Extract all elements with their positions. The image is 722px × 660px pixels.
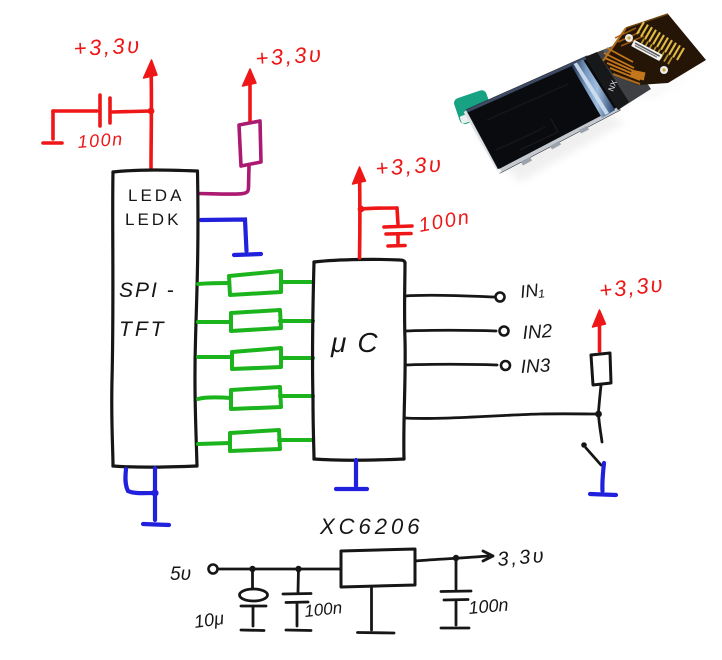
wire C2 top lead (red): [361, 208, 398, 224]
node: junction of U1 ground wires: [151, 489, 158, 496]
svg-text:100n: 100n: [303, 598, 343, 621]
SPI-TFT display box U1: [112, 170, 198, 467]
svg-text:100n: 100n: [417, 206, 473, 237]
photo shadow: [475, 72, 700, 182]
orange traces lower-left: [604, 48, 640, 80]
voltage regulator U3 XC6206: [341, 549, 415, 587]
svg-text:+3,3υ: +3,3υ: [255, 41, 325, 71]
orange pad near connector: [630, 70, 645, 81]
terminal IN1: [496, 293, 505, 302]
terminal 5V input: [209, 565, 218, 574]
capacitor C1 100n plates: [100, 95, 110, 126]
wire U3 ground pin: [370, 587, 373, 630]
wire U2 output 1: [405, 295, 494, 297]
node: junction C5 on 3,3V output: [453, 555, 459, 561]
ground (C2): [388, 234, 405, 246]
power symbol +3,3V arrow (top-left): [144, 60, 158, 169]
svg-text:μC: μC: [330, 327, 389, 358]
wire R7 to node A: [599, 385, 602, 412]
gold finger comb: [637, 22, 684, 60]
bottom small tabs: [521, 126, 589, 166]
wire LEDK pin to ground (blue): [201, 220, 247, 252]
wire switch to ground (blue): [602, 463, 604, 491]
ground (C3): [241, 606, 264, 631]
power symbol +3,3V arrow (above R6): [243, 69, 257, 121]
wire U2 output 2: [405, 329, 496, 333]
wire U2 output 3: [405, 363, 497, 367]
svg-text:IN₁: IN₁: [519, 279, 545, 302]
microcontroller box U2: [313, 259, 406, 460]
svg-text:10μ: 10μ: [193, 608, 226, 632]
resistor R5 (green) with leads: [198, 430, 313, 451]
resistor R4 (green) with leads: [198, 387, 313, 409]
wire U2 ground pin (blue): [354, 460, 358, 486]
ground (C4): [286, 603, 311, 631]
wire C1 left lead: [53, 109, 97, 113]
ground (switch): [590, 494, 616, 495]
teal tab: [453, 89, 494, 126]
blue stripe near connector: [571, 60, 615, 119]
resistor R2 (green) with leads: [198, 310, 313, 331]
ground (C5): [441, 600, 469, 628]
svg-text:3,3υ: 3,3υ: [497, 545, 548, 571]
svg-text:LEDK: LEDK: [125, 210, 181, 229]
ground (C1): [43, 111, 62, 143]
resistor R6 backlight (magenta): [239, 121, 261, 166]
ground (U2): [336, 487, 367, 491]
svg-text:XC6206: XC6206: [319, 514, 424, 539]
svg-text:100n: 100n: [77, 129, 124, 152]
resistor R3 (green) with leads: [198, 348, 313, 369]
node: junction of C2 with U2 supply: [358, 206, 365, 213]
svg-text:LEDA: LEDA: [128, 186, 184, 205]
node: junction C3 on 5V rail: [249, 566, 255, 572]
wire node A to switch: [599, 414, 603, 442]
silver frame bottom edge: [498, 107, 620, 173]
display glass body: [464, 56, 620, 173]
capacitor C4 100n: [283, 569, 311, 603]
ground (U1): [143, 524, 169, 525]
orange traces upper-left: [615, 28, 644, 46]
svg-text:+3,3υ: +3,3υ: [73, 32, 142, 61]
resistor R7 pull-up (black): [591, 353, 611, 385]
svg-text:100n: 100n: [468, 595, 510, 618]
silver frame left edge: [464, 110, 500, 173]
capacitor C5 100n: [441, 558, 471, 600]
svg-text:TFT: TFT: [119, 318, 166, 341]
svg-text:5υ: 5υ: [170, 564, 191, 585]
ground (LEDK): [234, 254, 261, 255]
node: junction C4 on 5V rail: [295, 566, 301, 572]
node: junction of C1 with +3,3V rail: [148, 108, 155, 115]
power symbol +3,3V arrow (U2): [353, 167, 366, 258]
corner glint: [497, 169, 501, 173]
inner reflections: [487, 84, 568, 150]
wire U1 ground pin B (blue): [153, 468, 157, 520]
mounting holes: [625, 34, 633, 42]
wire 5V input to regulator U3: [218, 568, 341, 571]
flex cable with gold fingers: [603, 14, 706, 85]
wire U2 input from switch node: [405, 414, 596, 419]
resistor R1 (green) with leads: [198, 271, 313, 295]
switch S1 blade: [586, 448, 601, 465]
wire R6 to LEDA pin (magenta): [199, 166, 250, 194]
grey connector: [585, 43, 651, 110]
svg-text:IN2: IN2: [522, 321, 553, 344]
svg-text:IN3: IN3: [520, 355, 551, 378]
capacitor C3 10u electrolytic: [240, 569, 268, 606]
power symbol +3,3V arrow (right): [593, 310, 606, 351]
second pad row: [640, 39, 672, 64]
wire U3 output to 3,3V: [415, 551, 493, 561]
ground (U3): [358, 631, 395, 634]
capacitor C2 100n plates (red): [384, 226, 412, 234]
switch S1 pivot: [581, 442, 587, 448]
wire C1 right lead to +3,3V rail: [112, 111, 151, 112]
svg-text:+3,3υ: +3,3υ: [598, 271, 666, 303]
top edge highlight: [466, 56, 589, 113]
white silkscreen label: [631, 40, 663, 61]
wire U1 ground pin A (blue): [125, 469, 154, 493]
terminal IN3: [501, 361, 510, 370]
svg-text:SPI -: SPI -: [119, 279, 176, 302]
svg-text:+3,3υ: +3,3υ: [375, 151, 445, 181]
node A: junction R7 / U2 wire / switch: [595, 411, 602, 418]
terminal IN2: [500, 327, 509, 336]
